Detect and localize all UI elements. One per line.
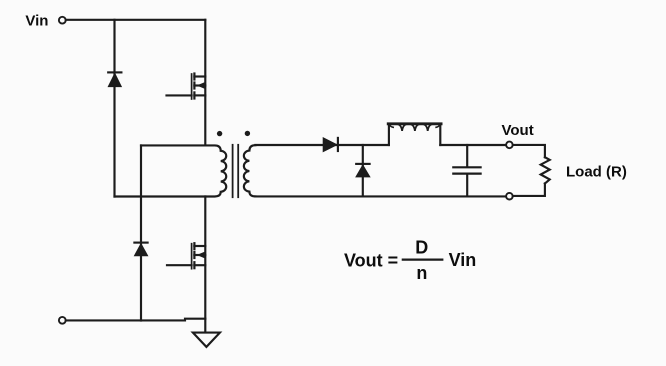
transistor Q2 (lower MOSFET) bbox=[167, 243, 205, 269]
capacitor C1 bbox=[453, 145, 480, 196]
svg-text:Vin: Vin bbox=[449, 250, 477, 270]
terminal bottom-left return bbox=[59, 317, 66, 324]
diode D2 clamp bbox=[134, 243, 147, 256]
svg-text:Vin: Vin bbox=[25, 12, 48, 29]
wire secondary top rail (right of inductor) bbox=[440, 144, 506, 146]
formula Vout = D/n Vin bbox=[344, 237, 476, 282]
svg-text:Vout =: Vout = bbox=[344, 251, 398, 271]
diode D1 clamp bbox=[108, 72, 121, 86]
inductor L1 bbox=[388, 124, 441, 145]
diode D4 freewheeling bbox=[356, 145, 370, 196]
terminal Vin input bbox=[59, 17, 66, 24]
svg-text:D: D bbox=[415, 237, 428, 257]
transistor Q1 (upper MOSFET) bbox=[167, 74, 206, 100]
wire left clamp rail bbox=[113, 20, 115, 197]
wire load top bbox=[513, 145, 545, 157]
terminal Vout- bbox=[506, 193, 513, 200]
transformer T1 core bbox=[233, 145, 239, 197]
transformer T1 primary winding bbox=[115, 145, 227, 196]
wire Q1 drain-source vertical bbox=[204, 20, 206, 146]
wire load bottom bbox=[513, 184, 545, 196]
wire primary left edge to D2 bbox=[140, 145, 142, 320]
transformer T1 secondary winding bbox=[244, 145, 256, 196]
formula fraction bar bbox=[403, 259, 443, 261]
svg-text:Load (R): Load (R) bbox=[566, 163, 627, 180]
diode D3 series rectifier bbox=[323, 138, 338, 152]
resistor Load (R) bbox=[541, 157, 550, 183]
wire Q2 drain vertical bbox=[204, 197, 206, 333]
polarity dot secondary bbox=[245, 131, 250, 136]
polarity dot primary bbox=[217, 131, 222, 136]
terminal Vout+ bbox=[506, 142, 513, 149]
svg-text:n: n bbox=[416, 263, 427, 283]
svg-text:Vout: Vout bbox=[502, 122, 534, 139]
ground bbox=[193, 333, 220, 347]
wire secondary top rail (left of inductor) bbox=[255, 144, 389, 146]
wire secondary bottom rail bbox=[255, 195, 506, 197]
wire bottom return rail bbox=[66, 319, 206, 321]
wire top rail Vin bbox=[66, 19, 206, 21]
